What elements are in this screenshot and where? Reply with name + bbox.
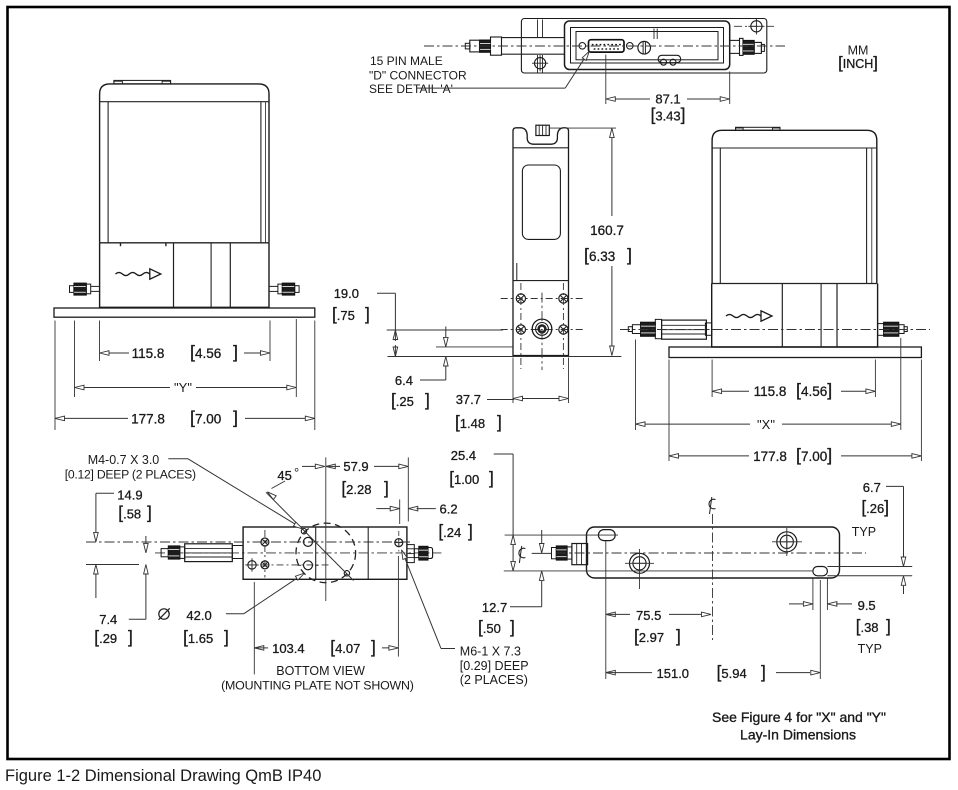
- dimension 57.9 [2.28]: [326, 457, 409, 521]
- bottom view vertical centerline through circle: [325, 457, 327, 601]
- svg-text:(2 PLACES): (2 PLACES): [460, 673, 528, 687]
- side view screw centerlines: [501, 283, 585, 369]
- side view screw top-right: [559, 294, 568, 303]
- svg-text:6.4: 6.4: [395, 373, 413, 388]
- svg-text:M6-1 X 7.3: M6-1 X 7.3: [460, 645, 521, 659]
- right view top ridge: [736, 127, 780, 130]
- plate view slot edge reference lines: [827, 567, 912, 576]
- label M6-1 X 7.3: [460, 645, 529, 688]
- svg-text:MM: MM: [848, 44, 869, 58]
- right view right fitting: [878, 322, 908, 336]
- side view D connector edge: [536, 125, 549, 135]
- right view dimension 177.8 [7.00]: [669, 360, 921, 465]
- dimension 12.7 [.50]: [478, 530, 544, 637]
- top view slotted screw: [638, 41, 651, 54]
- left view dimension 177.8 [7.00]: [55, 321, 315, 431]
- svg-text:]: ]: [497, 412, 502, 432]
- left view center valve block: [174, 243, 231, 308]
- bottom view body: [243, 527, 407, 579]
- bottom view M6 screw: [395, 531, 403, 554]
- top view 15-pin D connector: [589, 40, 625, 52]
- dimension 7.4 [.29]: [94, 536, 148, 647]
- bottom view main axis centerline: [155, 552, 441, 554]
- svg-text:BOTTOM VIEW: BOTTOM VIEW: [276, 664, 365, 678]
- dimension diameter 42.0 [1.65]: [159, 573, 305, 647]
- svg-text:See Figure 4 for "X" and "Y": See Figure 4 for "X" and "Y": [712, 709, 886, 725]
- top view plate screw right: [734, 18, 775, 34]
- label M4-0.7 X 3.0: [65, 453, 196, 482]
- svg-text:[INCH]: [INCH]: [838, 54, 878, 72]
- svg-text:(MOUNTING PLATE NOT SHOWN): (MOUNTING PLATE NOT SHOWN): [221, 679, 414, 693]
- left view right fitting: [269, 283, 299, 295]
- plate view slot centerline bottom: [504, 570, 813, 572]
- svg-text:87.1: 87.1: [655, 92, 680, 107]
- svg-text:]: ]: [233, 342, 238, 362]
- svg-text:75.5: 75.5: [636, 608, 661, 623]
- svg-text:]: ]: [510, 617, 515, 637]
- side view screw top-left: [516, 294, 525, 303]
- bottom view left fitting: [161, 544, 243, 562]
- side view body outline: [513, 128, 569, 356]
- dimension 151.0 [5.94]: [606, 580, 821, 682]
- svg-text:177.8: 177.8: [753, 449, 787, 464]
- label 15 PIN MALE D CONNECTOR SEE DETAIL A: [369, 54, 467, 96]
- svg-text:]: ]: [147, 503, 152, 523]
- right view cover: [712, 130, 877, 283]
- top view LED window with two holes: [658, 55, 680, 65]
- svg-text:115.8: 115.8: [754, 384, 787, 399]
- svg-text:"D" CONNECTOR: "D" CONNECTOR: [369, 69, 467, 83]
- bottom view center hole upper: [298, 537, 319, 546]
- right view center valve block: [782, 284, 837, 348]
- top view body center seam: [654, 29, 657, 40]
- svg-text:]: ]: [371, 637, 376, 657]
- right view left fitting: [628, 319, 711, 339]
- svg-text:14.9: 14.9: [117, 488, 142, 503]
- side view circular connector: [532, 319, 552, 339]
- dimension 25.4 [1.00]: [449, 448, 515, 571]
- right view base block: [712, 284, 878, 348]
- svg-text:]: ]: [761, 662, 766, 682]
- bottom view screw upper: [261, 538, 269, 546]
- dimension 45 deg: [267, 464, 325, 499]
- svg-text:Lay-In Dimensions: Lay-In Dimensions: [740, 727, 856, 743]
- left view left fitting: [70, 283, 100, 295]
- svg-text:TYP: TYP: [858, 642, 882, 656]
- svg-text:37.7: 37.7: [456, 392, 481, 407]
- bottom view M4 hole upper: [301, 529, 306, 534]
- svg-text:6.2: 6.2: [440, 502, 458, 517]
- top view mounting plate: [521, 19, 766, 74]
- bottom view centerline upper holes: [86, 541, 410, 543]
- svg-text:]: ]: [425, 390, 430, 410]
- label BOTTOM VIEW: [221, 664, 414, 693]
- svg-text:6.7: 6.7: [863, 480, 881, 495]
- bottom view M4 hole lower: [344, 571, 349, 576]
- bottom view screw column centerline: [264, 530, 266, 578]
- svg-text:12.7: 12.7: [482, 600, 507, 615]
- svg-text:177.8: 177.8: [131, 411, 165, 426]
- svg-text:SEE DETAIL 'A': SEE DETAIL 'A': [369, 82, 453, 96]
- svg-text:42.0: 42.0: [186, 608, 211, 623]
- dimension 37.7 [1.48]: [455, 358, 569, 433]
- note see figure 4: [712, 709, 886, 743]
- svg-text:°: °: [294, 465, 299, 480]
- bottom view open hole: [245, 558, 258, 571]
- svg-text:]: ]: [233, 407, 238, 427]
- dimension 103.4 [4.07]: [254, 556, 398, 674]
- dimension 19.0 [.75]: [332, 286, 503, 357]
- left view mounting plate: [54, 308, 315, 317]
- figure caption: [5, 767, 321, 785]
- plate view slot top-left: [598, 530, 615, 541]
- reference line plate top extended: [436, 346, 513, 348]
- svg-text:]: ]: [384, 478, 389, 498]
- left view dimension 115.8 [4.56]: [100, 321, 271, 363]
- dimension 9.5 [.38] TYP: [789, 579, 891, 657]
- leader M4 to hole: [168, 459, 302, 529]
- bottom view screw lower: [261, 561, 269, 569]
- svg-text:[0.12] DEEP (2 PLACES): [0.12] DEEP (2 PLACES): [65, 468, 196, 482]
- left view cover: [100, 84, 269, 246]
- right view dimension 115.8 [4.56]: [712, 360, 875, 401]
- leader M6 to screw: [402, 550, 456, 649]
- bottom view centerline lower holes: [86, 564, 332, 566]
- svg-text:160.7: 160.7: [590, 223, 624, 238]
- svg-text:9.5: 9.5: [858, 598, 876, 613]
- svg-text:TYP: TYP: [852, 525, 876, 539]
- side view screw bottom-right: [559, 325, 568, 334]
- left view top ridge: [114, 80, 171, 84]
- dimension 6.4 [.25]: [391, 327, 448, 411]
- dimension 160.7 [6.33]: [549, 128, 632, 355]
- dimension 6.7 [.26] TYP: [852, 480, 906, 594]
- bottom view dashed circle 42mm: [296, 523, 356, 583]
- left view flow arrow: [116, 269, 161, 279]
- left view dimension "Y": [75, 319, 297, 397]
- side view screw bottom-left: [516, 325, 525, 334]
- reference line plate bottom extended: [388, 356, 622, 358]
- svg-text:M4-0.7 X 3.0: M4-0.7 X 3.0: [88, 453, 160, 467]
- svg-text:151.0: 151.0: [657, 666, 690, 681]
- plate view vertical centerline: [712, 514, 714, 640]
- svg-text:115.8: 115.8: [132, 346, 165, 361]
- top view plate screw left: [532, 55, 548, 71]
- bottom view right fitting: [407, 545, 433, 563]
- side view label recess: [522, 165, 560, 239]
- leader to D connector: [416, 51, 589, 88]
- side view cover seam: [513, 263, 569, 281]
- svg-text:]: ]: [128, 627, 133, 647]
- right view flow arrow: [726, 311, 772, 321]
- svg-text:103.4: 103.4: [272, 641, 305, 656]
- top view plate seam lines: [538, 20, 543, 73]
- svg-text:]: ]: [224, 627, 229, 647]
- dimension 6.2 [.24]: [376, 499, 472, 541]
- svg-text:]: ]: [627, 245, 632, 265]
- top view D connector jack screws: [579, 43, 633, 50]
- units note MM [INCH]: [838, 44, 878, 73]
- top view left fitting: [465, 37, 564, 55]
- right view mounting plate: [669, 347, 921, 358]
- dimension 75.5 [2.97]: [606, 541, 711, 679]
- svg-text:]: ]: [886, 616, 891, 636]
- side view vertical centerline: [541, 293, 543, 370]
- svg-text:]: ]: [676, 626, 681, 646]
- plate view left fitting: [552, 544, 588, 565]
- plate view outline: [587, 527, 840, 578]
- svg-text:7.4: 7.4: [99, 612, 117, 627]
- svg-text:"Y": "Y": [174, 380, 192, 395]
- svg-text:57.9: 57.9: [343, 459, 368, 474]
- svg-text:Figure 1-2 Dimensional Drawing: Figure 1-2 Dimensional Drawing QmB IP40: [5, 767, 321, 785]
- plate view screw right: [772, 528, 802, 556]
- svg-text:19.0: 19.0: [334, 286, 359, 301]
- plate view screw left: [625, 549, 654, 589]
- bottom view 45 deg construction line: [266, 492, 354, 580]
- plate view slot centerline top: [505, 534, 618, 536]
- top view centerline: [424, 45, 785, 47]
- left view base block: [100, 243, 269, 307]
- svg-text:]: ]: [489, 468, 494, 488]
- svg-text:15 PIN MALE: 15 PIN MALE: [370, 54, 443, 68]
- right view centerline: [620, 329, 930, 331]
- plate view slot bottom-right: [813, 567, 828, 576]
- top view right fitting: [730, 38, 765, 55]
- svg-text:[0.29] DEEP: [0.29] DEEP: [460, 659, 529, 673]
- top view device body outline: [565, 21, 730, 70]
- right view dimension "X": [636, 338, 901, 432]
- svg-text:]: ]: [468, 521, 473, 541]
- dimension 87.1 [3.43]: [606, 55, 730, 125]
- svg-text:"X": "X": [757, 417, 775, 432]
- bottom view center hole lower: [298, 561, 319, 570]
- plate view centerline symbol left: [519, 546, 551, 563]
- dimension 14.9 [.58]: [94, 488, 152, 599]
- plate view center line symbol: [709, 497, 715, 514]
- plate view main axis centerline: [556, 552, 866, 554]
- svg-text:25.4: 25.4: [451, 448, 476, 463]
- svg-text:]: ]: [365, 304, 370, 324]
